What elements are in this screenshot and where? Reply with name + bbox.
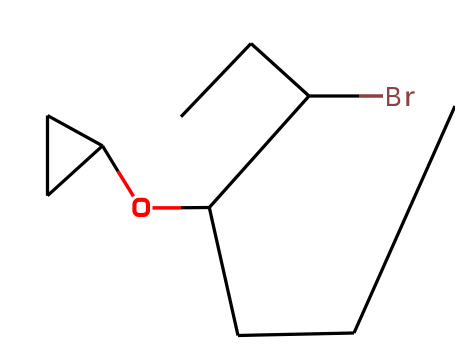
bond bottom edge: [238, 333, 354, 336]
bond C2 up-right long diagonal: [209, 96, 309, 208]
bond O-C2 black half: [181, 206, 209, 210]
bond C1-O black half: [103, 146, 119, 172]
bond apex right leg: [251, 44, 309, 97]
atom O label: [134, 200, 148, 215]
bond C2 down long diagonal: [209, 208, 238, 336]
bond apex left leg (terminal methyl): [181, 44, 251, 117]
bond O-C2 red half: [153, 206, 182, 210]
cyclopropyl ring: top edge: [48, 116, 103, 146]
cyclopropyl ring: left edge: [46, 116, 49, 196]
cyclopropyl ring: bottom edge: [48, 146, 103, 196]
bond C3-Br maroon half: [359, 94, 383, 98]
bond C3-Br black half: [309, 94, 359, 97]
bond C1-O red half: [118, 171, 134, 196]
bond right long diagonal (exits canvas): [354, 106, 455, 333]
svg-text:B: B: [385, 81, 402, 113]
svg-text:r: r: [404, 81, 415, 112]
